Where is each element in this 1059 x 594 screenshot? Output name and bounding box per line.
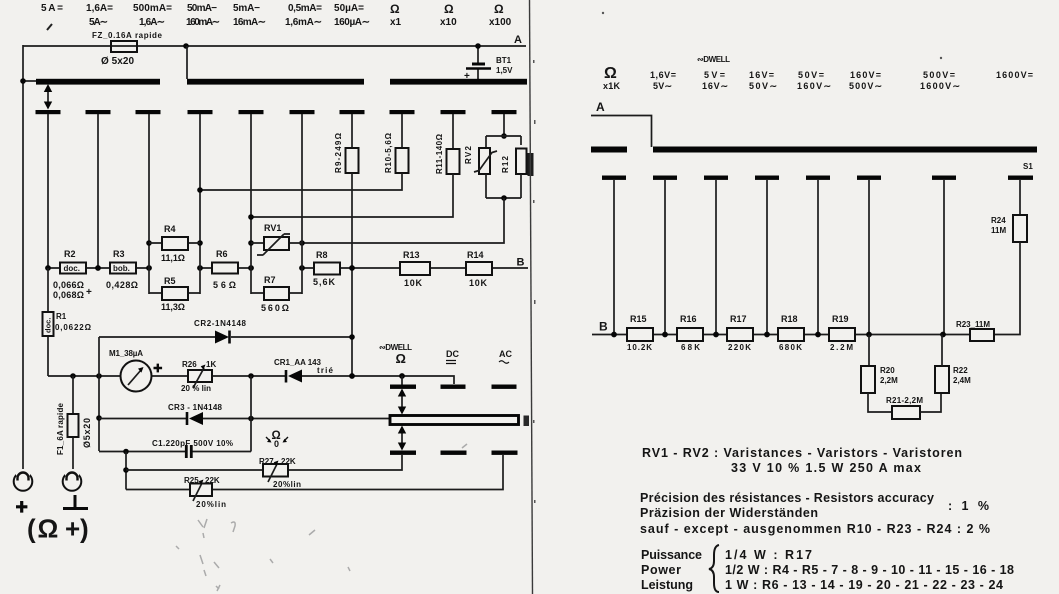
junction meter line/rail2 [248, 373, 254, 379]
resistor R13 [400, 262, 430, 275]
switch contact stud 7 (50uA) [340, 110, 365, 114]
junction B/contact3 [146, 265, 152, 271]
svg-text:R14: R14 [467, 250, 484, 260]
svg-text:1,6V=: 1,6V= [650, 70, 676, 80]
wire stud1 drop [613, 180, 615, 335]
wire CR2 branch [99, 336, 352, 338]
junction B/stud5 [815, 332, 821, 338]
svg-text:R16: R16 [680, 314, 697, 324]
svg-text:R15: R15 [630, 314, 647, 324]
varistor RV2 [479, 148, 490, 174]
S1 contact stud 3 (5V dwell) [704, 176, 728, 180]
diode CR2 1N4148 [215, 331, 229, 344]
svg-text:S1: S1 [1023, 162, 1033, 171]
svg-text:Ω: Ω [494, 2, 504, 16]
svg-text:: 1 %: : 1 % [948, 499, 989, 513]
resistor R14 [466, 262, 492, 275]
junction B/stud2 [662, 332, 668, 338]
wire top A rail [23, 45, 526, 47]
svg-text:5V=: 5V= [704, 70, 725, 80]
wire contact8 to R10 [401, 114, 403, 148]
resistor R19 [829, 328, 855, 341]
wire R11 bottom L to contact5 vertical [251, 174, 453, 217]
svg-text:1600V=: 1600V= [996, 70, 1033, 80]
resistor R8 [314, 263, 340, 275]
switch contact stud 2 (1,6A) [86, 110, 111, 114]
junction dot 200,190 [197, 187, 203, 193]
svg-text:Précision des résistances - Re: Précision des résistances - Resistors ac… [640, 491, 934, 505]
S1 contact stud 5 (50V) [806, 176, 830, 180]
bus rotor rail segment 2 [187, 79, 364, 85]
junction B/stud6-R20 [866, 332, 872, 338]
svg-text:doc.: doc. [44, 318, 53, 333]
svg-text:Präzision der Widerständen: Präzision der Widerständen [640, 506, 818, 520]
junction dot 504,136 [501, 133, 507, 139]
resistor R12 [516, 149, 527, 175]
wire stud5 drop [817, 180, 819, 335]
svg-text:1K: 1K [206, 360, 216, 369]
svg-text:560Ω: 560Ω [261, 303, 289, 313]
svg-text:50V=: 50V= [798, 70, 824, 80]
svg-text:Ω: Ω [396, 351, 406, 366]
meter M1 38uA [121, 361, 152, 392]
svg-text:x100: x100 [489, 17, 512, 28]
svg-text:R22: R22 [953, 366, 968, 375]
svg-text:R5: R5 [164, 276, 176, 286]
function switch bottom contacts [390, 451, 416, 455]
shunt R2 doc. [60, 263, 86, 274]
svg-text:0,5mA=: 0,5mA= [288, 3, 322, 14]
junction B/stud7-R22 [940, 332, 946, 338]
resistor R11 140ohm [447, 149, 460, 174]
switch contact stud 10 (ohm x100) [492, 110, 517, 114]
capacitor C1 220pF [186, 445, 191, 458]
wire A feed [591, 116, 652, 148]
S1 contact stud 8 (1600V) [1008, 176, 1033, 180]
svg-text:5A∼: 5A∼ [89, 17, 108, 28]
svg-text:B: B [517, 257, 525, 269]
svg-text:50V∼: 50V∼ [749, 81, 777, 91]
svg-text:R21-2,2M: R21-2,2M [886, 396, 923, 405]
svg-text:+: + [86, 287, 92, 298]
svg-text:68K: 68K [681, 343, 700, 352]
svg-text:DC: DC [446, 349, 459, 359]
battery BT1 plates [472, 63, 485, 66]
fuse F1 6A rapide [72, 376, 74, 469]
svg-text:Ω: Ω [604, 65, 617, 82]
junction B/stud3 [713, 332, 719, 338]
svg-text:1/2 W : R4 - R5 - 7 - 8 - 9 -: 1/2 W : R4 - R5 - 7 - 8 - 9 - 10 - 11 - … [725, 563, 1014, 577]
svg-text:R26: R26 [182, 360, 197, 369]
brace [709, 545, 719, 592]
wire C1 branch [99, 451, 251, 453]
S1 contact stud 4 (16V) [755, 176, 779, 180]
wire R20 to R21 [868, 393, 892, 412]
svg-text:Ø5x20: Ø5x20 [82, 418, 92, 448]
svg-text:∾DWELL: ∾DWELL [697, 55, 730, 64]
svg-text:R25: R25 [184, 476, 199, 485]
svg-text:R23_11M: R23_11M [956, 320, 990, 329]
svg-text:CR1_AA 143: CR1_AA 143 [274, 358, 322, 367]
svg-text:500V∼: 500V∼ [849, 81, 882, 91]
svg-text:16V=: 16V= [749, 70, 774, 80]
wire contact6 down [301, 114, 303, 240]
svg-text:16mA∼: 16mA∼ [233, 17, 266, 28]
svg-text:F1_6A rapide: F1_6A rapide [56, 402, 65, 455]
rotor bar of function switch [390, 416, 519, 425]
svg-text:R8: R8 [316, 250, 328, 260]
svg-text:R13: R13 [403, 250, 420, 260]
junction B/R9 rail [349, 265, 355, 271]
wire R22 to B line [941, 335, 943, 367]
meter line [48, 376, 454, 384]
svg-text:x1: x1 [390, 17, 402, 28]
S1 contact stud 6 (160V) [857, 176, 881, 180]
svg-text:500V=: 500V= [923, 70, 955, 80]
svg-text:RV2: RV2 [464, 145, 473, 164]
wire contact7 to R9 [351, 114, 353, 148]
svg-text:220K: 220K [728, 343, 751, 352]
svg-text:10K: 10K [404, 278, 423, 288]
ground symbol [63, 495, 88, 509]
junction meter line/dwell contact [399, 373, 405, 379]
page divider line [530, 0, 533, 594]
svg-text:Ω: Ω [390, 2, 400, 16]
shunt R3 bob. [110, 263, 136, 274]
switch contact stud 1 (5A) [36, 110, 61, 114]
bus rotor rail right seg1 [591, 147, 627, 153]
svg-text:22K: 22K [205, 476, 220, 485]
svg-text:C1.220pF 500V 10%: C1.220pF 500V 10% [152, 439, 233, 448]
wire stud7 drop [943, 180, 945, 335]
svg-text:Leistung: Leistung [641, 578, 693, 592]
rotor end mark at border [524, 416, 530, 427]
stray slash mark [47, 24, 52, 30]
resistor R22 2,4M [935, 366, 949, 393]
svg-text:Ø 5x20: Ø 5x20 [101, 56, 134, 67]
svg-text:0: 0 [274, 439, 279, 449]
S1 contact stud 2 (1,6V) [653, 176, 677, 180]
svg-text:CR3 - 1N4148: CR3 - 1N4148 [168, 403, 223, 412]
junction dot at 23,82 [20, 78, 26, 84]
svg-text:1 W : R6 - 13 - 14 - 19 - 20: 1 W : R6 - 13 - 14 - 19 - 20 - 21 - 22 -… [725, 578, 1003, 592]
svg-text:CR2-1N4148: CR2-1N4148 [194, 319, 247, 328]
switch contact stud 6 (0,5mA) [290, 110, 315, 114]
svg-text:Ω: Ω [444, 2, 454, 16]
resistor R4 [149, 242, 200, 244]
battery BT1 wire [477, 46, 479, 80]
svg-text:2,2M: 2,2M [880, 376, 898, 385]
svg-text:500mA=: 500mA= [133, 3, 172, 14]
node B line left page [48, 267, 528, 269]
switch contact stud 8 (ohm x1) [390, 110, 415, 114]
svg-text:R10-5,6Ω: R10-5,6Ω [384, 132, 393, 173]
junction dot node 186,46 [183, 43, 189, 49]
svg-text:5V∼: 5V∼ [653, 81, 672, 91]
svg-text:FZ_0.16A rapide: FZ_0.16A rapide [92, 31, 163, 40]
junction B/contact6 [299, 265, 305, 271]
svg-text:11M: 11M [991, 226, 1006, 235]
svg-text:Puissance: Puissance [641, 548, 702, 562]
wire contact2 to B line [97, 114, 99, 268]
wire RV2/R12 bottom tie [486, 174, 521, 198]
svg-text:R27: R27 [259, 457, 274, 466]
ink blob on border [528, 153, 534, 176]
resistor R23 11M [970, 329, 994, 341]
wire contact1 to B line [47, 114, 49, 268]
svg-text:R3: R3 [113, 249, 125, 259]
svg-text:R20: R20 [880, 366, 895, 375]
svg-text:1,6A∼: 1,6A∼ [139, 17, 165, 28]
svg-text:R18: R18 [781, 314, 798, 324]
node B line right page [592, 334, 970, 336]
resistor R16 [677, 328, 703, 341]
svg-text:doc.: doc. [64, 264, 80, 273]
wire R21 to R22 [920, 393, 941, 412]
svg-text:680K: 680K [779, 343, 802, 352]
svg-text:R24: R24 [991, 216, 1006, 225]
junction meter line/R9 rail [349, 373, 355, 379]
wire contact3 to R4/R5 left node [148, 114, 150, 240]
svg-text:R11-140Ω: R11-140Ω [435, 133, 444, 174]
svg-text:1,6A=: 1,6A= [86, 3, 113, 14]
svg-text:50µA=: 50µA= [334, 3, 364, 14]
svg-text:160V=: 160V= [850, 70, 881, 80]
resistor R18 [778, 328, 804, 341]
wire stud6 drop [868, 180, 870, 335]
junction B/contact4 [197, 265, 203, 271]
terminal + (jack) [14, 472, 33, 491]
wire contact10 down [503, 114, 505, 136]
svg-text:5mA−: 5mA− [233, 3, 260, 14]
wire stud2 drop [664, 180, 666, 335]
resistor R10 5,6ohm [396, 148, 409, 173]
junction B/stud1 [611, 332, 617, 338]
svg-text:33 V 10 % 1.5 W 250 A max: 33 V 10 % 1.5 W 250 A max [731, 461, 921, 475]
junction B/contact1 [45, 265, 51, 271]
svg-text:10K: 10K [469, 278, 488, 288]
svg-text:BT1: BT1 [496, 56, 512, 65]
wire RV2/R12 top tie [486, 136, 521, 147]
function switch top contacts [390, 385, 416, 389]
junction B/contact2 [95, 265, 101, 271]
svg-text:0,068Ω: 0,068Ω [53, 290, 84, 300]
junction meter line/F1 [70, 373, 76, 379]
svg-text:56Ω: 56Ω [213, 280, 236, 290]
svg-text:R2: R2 [64, 249, 76, 259]
junction meter line/rail [96, 373, 102, 379]
svg-text:11,3Ω: 11,3Ω [161, 302, 185, 312]
svg-text:5A=: 5A= [41, 3, 63, 14]
svg-text:50mA−: 50mA− [187, 3, 217, 14]
resistor R24 11M [1013, 215, 1027, 242]
svg-text:1,6mA∼: 1,6mA∼ [285, 17, 322, 28]
terminal ohm+ (jack) [63, 472, 82, 491]
svg-text:A: A [596, 100, 605, 114]
svg-text:R1: R1 [56, 312, 67, 321]
svg-text:2.2M: 2.2M [830, 343, 853, 352]
wire down from RV2/R12 to 242 rail [302, 198, 504, 243]
rail x126 [125, 452, 127, 490]
svg-text:Power: Power [641, 563, 681, 577]
resistor R9 249ohm [346, 148, 359, 173]
wire left vertical to + terminal [22, 45, 24, 469]
rail x99 [98, 337, 100, 451]
resistor R15 [627, 328, 653, 341]
wire CR3 branch [99, 418, 390, 420]
S1 contact stud 1 (ohm x1K) [602, 176, 626, 180]
wire R10 bottom L to contact4 vertical [200, 173, 402, 190]
resistor R5 [149, 292, 200, 294]
svg-text:16V∼: 16V∼ [702, 81, 728, 91]
svg-text:160V∼: 160V∼ [797, 81, 831, 91]
resistor R17 [727, 328, 753, 341]
svg-text:20 % lin: 20 % lin [181, 384, 211, 393]
wire R9 bottom rail [351, 173, 353, 376]
wire contact4 down [199, 114, 201, 240]
svg-text:R7: R7 [264, 275, 276, 285]
svg-text:R19: R19 [832, 314, 849, 324]
resistor R7 [251, 292, 302, 294]
resistor R21 2,2M [892, 406, 920, 419]
svg-text:0,0622Ω: 0,0622Ω [55, 323, 92, 332]
varistor RV1 [251, 242, 302, 244]
divider speckles [533, 12, 942, 503]
bus rotor rail right seg2 [653, 147, 1037, 153]
junction dot 504,198 [501, 195, 507, 201]
svg-text:22K: 22K [281, 457, 296, 466]
svg-text:2,4M: 2,4M [953, 376, 971, 385]
potentiometer R26 1K [188, 370, 212, 382]
wiper arrow contact 1 [47, 88, 49, 106]
switch contact stud 5 (5mA) [239, 110, 264, 114]
svg-text:M1_38µA: M1_38µA [109, 349, 143, 358]
switch contact stud 3 (500mA) [136, 110, 161, 114]
svg-text:1/4 W : R17: 1/4 W : R17 [725, 548, 812, 562]
junction dot 302,243 [299, 240, 305, 246]
switch contact stud 4 (50mA) [188, 110, 213, 114]
resistor R1 doc. [47, 268, 49, 376]
diode CR1 AA143 [285, 370, 288, 383]
switch contact stud 9 (ohm x10) [441, 110, 466, 114]
svg-text:5,6K: 5,6K [313, 277, 336, 287]
wire contact8 to R24 [1019, 180, 1021, 215]
svg-text:R6: R6 [216, 249, 228, 259]
svg-text:x1K: x1K [603, 81, 621, 91]
wire contact5 down [250, 114, 252, 240]
svg-text:1,5V: 1,5V [496, 66, 513, 75]
svg-text:R12: R12 [501, 155, 510, 173]
wire stud3 drop [715, 180, 717, 335]
potentiometer R25 22K [190, 484, 212, 497]
wire R25 branch [126, 455, 503, 490]
svg-text:AC: AC [499, 349, 512, 359]
wire R24 down to B line [994, 242, 1020, 335]
wire DWELL top drop [401, 376, 403, 385]
svg-text:RV1 - RV2 : Varistances - Vari: RV1 - RV2 : Varistances - Varistors - Va… [642, 446, 962, 460]
svg-text:20%lin: 20%lin [273, 480, 301, 489]
bus rotor rail segment 3 [390, 79, 527, 85]
wire stud4 drop [766, 180, 768, 335]
wire drop to bus seg2 [186, 46, 188, 79]
junction dot 251,217 [248, 214, 254, 220]
node stub to bus [23, 80, 37, 82]
wire contact9 to R11 [452, 114, 454, 149]
R4/R5 parallel block rails [149, 240, 200, 294]
svg-text:R9-249Ω: R9-249Ω [334, 132, 343, 173]
wiper arrows bottom (DWELL) [401, 429, 403, 448]
svg-text:(Ω+): (Ω+) [27, 514, 89, 544]
svg-text:10.2K: 10.2K [627, 343, 652, 352]
svg-text:x10: x10 [440, 17, 457, 28]
svg-text:160mA∼: 160mA∼ [186, 17, 220, 28]
svg-text:20%lin: 20%lin [196, 500, 226, 509]
svg-text:11,1Ω: 11,1Ω [161, 253, 185, 263]
wiper arrows top (DWELL) [401, 392, 403, 412]
svg-text:RV1: RV1 [264, 223, 281, 233]
S1 contact stud 7 (500V) [932, 176, 956, 180]
junction B/stud4 [764, 332, 770, 338]
svg-text:0,428Ω: 0,428Ω [106, 280, 138, 290]
fuse FZ 0.16A rapide [111, 41, 137, 52]
svg-text:bob.: bob. [113, 264, 130, 273]
svg-text:1600V∼: 1600V∼ [920, 81, 960, 91]
potentiometer R27 22K [263, 464, 288, 477]
bus rotor rail segment 1 [36, 79, 160, 85]
svg-text:sauf - except - ausgenommen R: sauf - except - ausgenommen R10 - R23 - … [640, 522, 990, 536]
junction B/contact5 [248, 265, 254, 271]
diode CR3 1N4148 [186, 412, 189, 425]
resistor R6 [212, 263, 238, 274]
wire R27 branch [126, 455, 402, 470]
svg-text:A: A [514, 34, 522, 46]
svg-text:R4: R4 [164, 224, 176, 234]
svg-text:R17: R17 [730, 314, 747, 324]
faint handwriting marks [176, 444, 467, 591]
svg-text:B: B [599, 320, 608, 334]
rail x251 [250, 376, 252, 452]
RV1/R7 parallel block rails [251, 240, 302, 294]
svg-text:0,066Ω: 0,066Ω [53, 280, 84, 290]
junction dots block1 [146, 240, 152, 246]
junction dot battery top [475, 43, 481, 49]
svg-text:trié: trié [317, 366, 334, 375]
resistor R20 2,2M [868, 335, 870, 367]
svg-text:160µA∼: 160µA∼ [334, 17, 370, 28]
